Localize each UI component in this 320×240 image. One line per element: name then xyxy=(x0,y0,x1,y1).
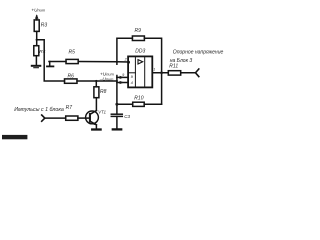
svg-text:DD3: DD3 xyxy=(135,49,145,55)
resistor R7 xyxy=(66,116,78,120)
resistor R9 xyxy=(132,36,144,41)
-U arrow into op-amp xyxy=(117,82,128,84)
wire R8 from R6 line down xyxy=(95,81,97,87)
VT1 base bar xyxy=(89,113,91,123)
wire R5 to inverting input xyxy=(78,61,128,64)
power vertical xyxy=(116,76,118,114)
svg-text:+Uпит: +Uпит xyxy=(31,7,45,12)
wire R6 to op-amp xyxy=(77,80,117,82)
wire R8 to collector xyxy=(95,98,97,111)
ground under VT1 xyxy=(92,128,100,130)
svg-text:R9: R9 xyxy=(135,28,142,34)
op-amp divider 2 xyxy=(144,56,146,87)
ground under C3 xyxy=(113,128,121,130)
svg-text:на Блок 3: на Блок 3 xyxy=(170,58,193,64)
censored black bar xyxy=(2,135,27,139)
svg-text:Импульсы с 1 блока: Импульсы с 1 блока xyxy=(14,107,64,113)
svg-text:R7: R7 xyxy=(66,105,73,111)
resistor R11 xyxy=(168,71,180,75)
svg-text:VT1: VT1 xyxy=(98,109,106,114)
wire R9 right to output node xyxy=(144,38,161,104)
wire R7 to base xyxy=(78,117,89,119)
node R8 top junction xyxy=(95,80,97,82)
capacitor C3 xyxy=(111,113,122,115)
node R10 junction xyxy=(115,103,118,106)
svg-text:R6: R6 xyxy=(68,74,75,80)
wire R3 to R4 xyxy=(36,31,38,45)
op-amp side field divider xyxy=(128,72,135,74)
svg-text:1: 1 xyxy=(153,68,155,72)
svg-text:R3: R3 xyxy=(41,23,48,29)
resistor R6 xyxy=(65,79,78,83)
resistor R8 xyxy=(94,87,99,98)
op-amp triangle symbol xyxy=(138,60,143,64)
svg-text:Опорное напряжение: Опорное напряжение xyxy=(173,49,224,55)
ground stub at R5 left xyxy=(49,62,51,66)
svg-text:2: 2 xyxy=(124,57,127,61)
wire R5 xyxy=(49,61,66,63)
VT1 collector diagonal xyxy=(91,111,97,114)
wire R11 to off-page arrow xyxy=(181,72,196,74)
wire input to R7 xyxy=(45,117,66,119)
+Upit arrow xyxy=(36,16,38,20)
svg-text:R8: R8 xyxy=(100,89,107,95)
wire C3 to ground xyxy=(116,116,118,128)
svg-text:R5: R5 xyxy=(69,50,76,56)
resistor R3 xyxy=(34,20,39,32)
node inv input junction xyxy=(116,61,118,63)
VT1 emitter wire to ground xyxy=(95,125,97,129)
resistor R5 xyxy=(66,59,78,63)
wire R4 to ground xyxy=(35,56,37,65)
wire R9 vertical left xyxy=(117,38,132,64)
wire divider junction to x44 down to R6 xyxy=(37,40,65,81)
wire R10 left xyxy=(117,103,133,105)
VT1 emitter diagonal with arrow xyxy=(91,122,97,125)
wire R10 right up to output xyxy=(144,103,161,105)
node dot at box edge inv pin xyxy=(127,61,130,64)
ground under R4 xyxy=(32,65,41,67)
input arrow (off-page) xyxy=(42,115,45,121)
op-amp divider 1 xyxy=(134,56,136,87)
output off-page arrow xyxy=(196,69,199,77)
svg-text:R10: R10 xyxy=(134,96,143,102)
wire output xyxy=(152,72,168,74)
transistor VT1 xyxy=(86,111,99,124)
resistor R4 xyxy=(34,46,39,56)
resistor R10 xyxy=(133,102,145,106)
node output junction xyxy=(160,71,163,74)
svg-text:9: 9 xyxy=(122,73,124,77)
+U arrow into op-amp xyxy=(117,76,128,78)
node junction R3/R4 xyxy=(36,39,38,41)
svg-text:R11: R11 xyxy=(169,63,178,69)
op-amp U1 box xyxy=(128,56,152,87)
node R6/vertical junction xyxy=(116,80,118,82)
svg-text:C3: C3 xyxy=(124,114,130,119)
